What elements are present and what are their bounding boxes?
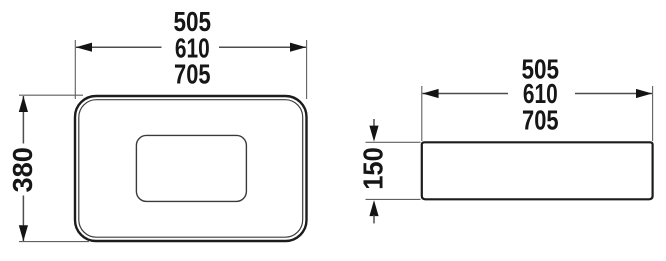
arrowhead: right view width dim, right xyxy=(636,89,652,98)
extension line: left view top-right vertical xyxy=(306,40,308,99)
right view: washbasin body side profile xyxy=(422,142,653,199)
extension line: left view depth, bottom horizontal xyxy=(19,241,89,243)
dimension line: left view width, right segment xyxy=(219,46,306,48)
dimension tail line: right view height, below bottom arrow xyxy=(373,215,375,223)
dimension line: left view depth, upper segment xyxy=(22,96,24,144)
dimension line: left view depth, lower segment xyxy=(22,196,24,242)
arrowhead: right view width dim, left xyxy=(422,89,438,98)
arrowhead: left view width dim, right xyxy=(290,43,306,52)
svg-text:150: 150 xyxy=(358,147,389,190)
left view: basin bowl opening (plan) xyxy=(136,135,246,201)
extension line: right view top-right vertical xyxy=(652,86,654,141)
dimension line: right view width, left segment xyxy=(423,93,509,95)
dimension line: left view width, left segment xyxy=(76,46,162,48)
extension line: left view depth, top horizontal xyxy=(19,94,83,96)
svg-text:705: 705 xyxy=(522,105,559,136)
extension line: right view height, top horizontal xyxy=(366,141,421,143)
svg-text:380: 380 xyxy=(7,147,38,193)
left view: washbasin outer rim (plan) xyxy=(75,96,307,241)
svg-text:705: 705 xyxy=(174,59,211,90)
arrowhead: right view height dim, top (pointing down) xyxy=(369,126,378,142)
dimension tail line: right view height, above top arrow xyxy=(373,119,375,127)
dimension line: right view width, right segment xyxy=(575,93,652,95)
extension line: right view height, bottom horizontal xyxy=(366,198,421,200)
left view: washbasin inner rim line (plan) xyxy=(79,100,303,238)
arrowhead: right view height dim, bottom (pointing up) xyxy=(369,200,378,216)
arrowhead: left view depth dim, bottom xyxy=(19,225,28,241)
extension line: left view top-left vertical xyxy=(74,40,76,99)
extension line: right view top-left vertical xyxy=(421,86,423,141)
arrowhead: left view depth dim, top xyxy=(19,96,28,112)
arrowhead: left view width dim, left xyxy=(76,43,92,52)
